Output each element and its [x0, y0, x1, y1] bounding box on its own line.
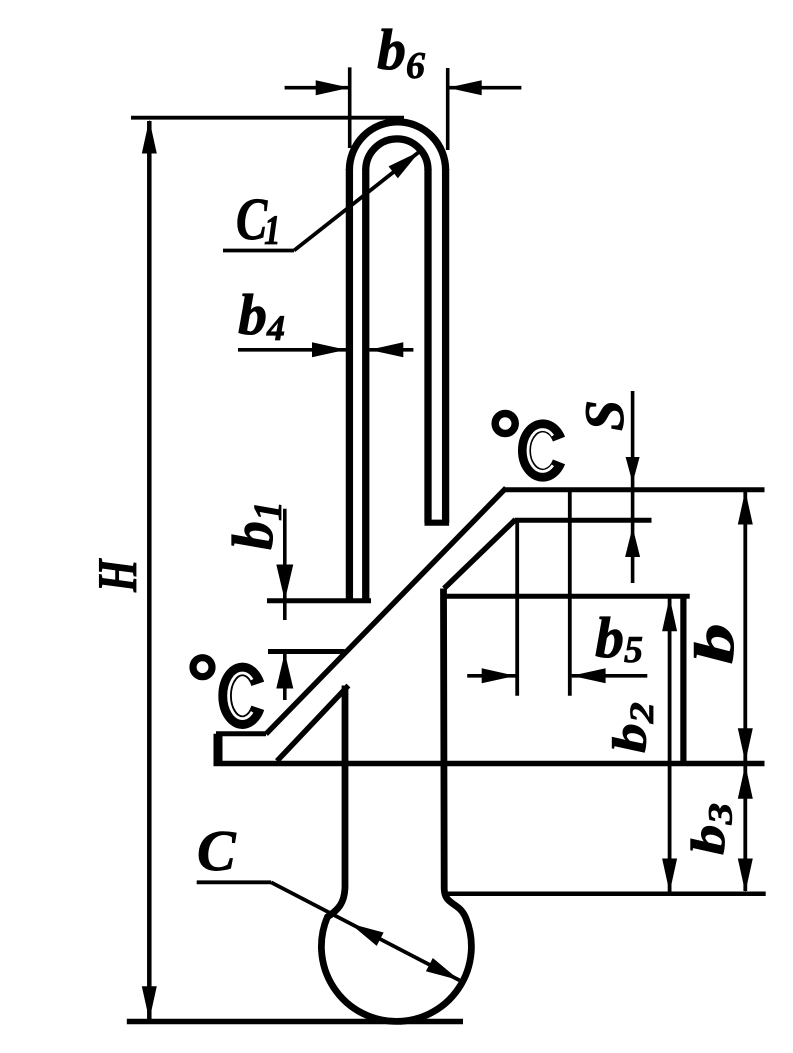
extension line b6 left [348, 67, 352, 148]
degree-C symbol lower [193, 658, 258, 723]
arrowhead b bottom [738, 728, 753, 762]
arrowhead b6 left [316, 80, 350, 95]
label H (rotated) [99, 558, 136, 592]
dimension line b2 [668, 599, 672, 892]
stem walls + bulb outline (continuous) [321, 589, 471, 1022]
arrowhead b1 top [276, 565, 293, 601]
extension line b1 upper (capillary left leg end) [267, 598, 371, 603]
dimension line b1 upper shaft [283, 509, 287, 620]
dimension line b6 left tail [285, 86, 350, 90]
dimension line b3 [743, 766, 747, 891]
arrowhead b top [738, 491, 753, 525]
label b4 [239, 294, 284, 340]
arrowhead b6 right [448, 80, 482, 95]
arrowhead b3 bottom [738, 859, 753, 893]
arrowhead b5 left [482, 668, 516, 683]
arrowhead b4 left [312, 342, 346, 357]
extension line b1 lower [268, 649, 345, 654]
arrowhead b3 top [738, 765, 753, 799]
label C [199, 832, 236, 871]
arrowhead S bottom [625, 527, 640, 557]
leader line C diameter diagonal [271, 882, 460, 980]
leader line C1 underline [223, 249, 294, 253]
label b6 [378, 29, 425, 79]
scale plate main diagonal edge [266, 488, 506, 734]
leader line C1 diagonal [294, 151, 420, 250]
scale plate second diagonal edge [444, 520, 516, 589]
case bottom edge line [214, 761, 765, 766]
leader line C underline [197, 880, 271, 884]
arrowhead b4 right [369, 342, 403, 357]
arrowhead H top [142, 120, 157, 154]
wire H bottom extension line [127, 1019, 463, 1024]
dimension line b5 right tail [572, 674, 648, 678]
capillary right leg outer wall [442, 169, 449, 523]
arrowhead C lower [426, 958, 463, 987]
dimension line H [147, 121, 152, 1019]
degree-C symbol upper [495, 414, 559, 476]
groove vertical line right [568, 490, 572, 696]
scale plate step line [515, 518, 652, 523]
arrowhead H bottom [142, 986, 157, 1020]
extension line bottom reference [446, 891, 766, 896]
arrowhead b2 bottom [662, 859, 677, 893]
case left end vertical edge [214, 734, 223, 764]
dimension line b [743, 492, 747, 761]
label b1 (rotated) [232, 505, 281, 549]
label b5 [596, 617, 642, 663]
case mid horizontal line [444, 594, 690, 599]
dimension line b4 right tail [369, 348, 413, 352]
scale plate top surface line [505, 487, 765, 492]
capillary U-tube outer bend arc [349, 122, 445, 170]
case right vertical edge [680, 596, 686, 766]
capillary right leg inner wall [424, 169, 431, 523]
label C1 [238, 199, 278, 244]
arrowhead C upper [347, 917, 384, 946]
dimension line S shaft [631, 391, 635, 583]
case left end top edge [216, 731, 266, 736]
arrowhead S top [626, 457, 640, 483]
arrowhead b5 right [572, 668, 606, 683]
dimension line b4 left tail [238, 348, 346, 352]
dimension line b6 right tail [448, 86, 522, 90]
groove vertical line left [515, 520, 519, 695]
label b3 (rotated) [691, 804, 732, 854]
extension line b6 right [446, 68, 450, 150]
arrowhead C1 [389, 145, 425, 178]
arrowhead b2 top [662, 597, 677, 631]
label b2 (rotated) [612, 703, 653, 752]
dimension line b1 lower shaft [283, 653, 287, 701]
capillary right leg end cap [425, 520, 450, 526]
dimension line b5 left tail [467, 674, 516, 678]
arrowhead b1 bottom [276, 653, 293, 689]
triangle hypotenuse edge [277, 686, 348, 762]
capillary left leg inner wall [362, 169, 369, 601]
capillary U-tube inner bend arc [366, 139, 428, 170]
label b (rotated) [694, 626, 733, 663]
wire H top extension line [131, 116, 404, 120]
label S (rotated) [586, 402, 624, 430]
capillary left leg outer wall [346, 169, 353, 601]
